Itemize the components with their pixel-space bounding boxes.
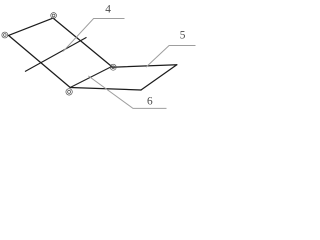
crease line L on left panel (element 4), overshoots both edges (25, 37, 87, 71)
panel 4 (left tilted panel) outline (9, 18, 112, 87)
wire bottom edge BR-VB (70, 88, 141, 91)
panel 5/6 (right flat panel) outline (70, 65, 177, 90)
wire edge VL-VB (9, 35, 71, 87)
svg-text:4: 4 (105, 3, 111, 15)
leader line for label 6 (88, 76, 166, 109)
wire top edge VR-tip (112, 65, 177, 68)
svg-text:6: 6 (147, 96, 153, 108)
wire edge VT-VR (53, 18, 112, 66)
leader line for label 5 (146, 46, 196, 68)
wire right edge tip-BR (141, 65, 177, 90)
leader line for label 4 (63, 19, 124, 52)
hinge circle at left corner (2, 32, 8, 38)
hinge circle at bottom corner (66, 89, 72, 95)
hinge circle at top corner (51, 13, 57, 19)
wire edge VL-VT (9, 18, 54, 35)
svg-text:5: 5 (180, 30, 186, 42)
fold line VB-VR (thin shared hinge edge) (70, 67, 112, 88)
hinge circle at middle corner (110, 64, 116, 70)
